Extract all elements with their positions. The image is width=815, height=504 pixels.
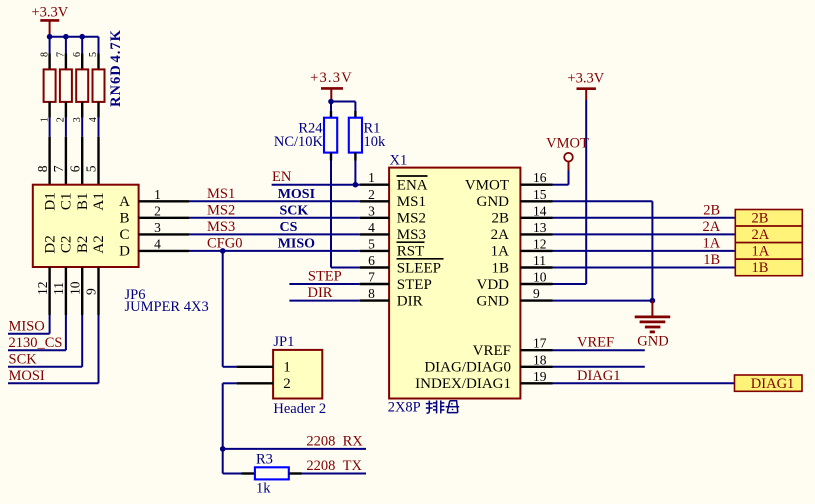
wire (VMOT to pin16) (553, 171, 569, 185)
svg-text:2X8P: 2X8P (388, 400, 421, 416)
JP1 pin 2 stub (237, 382, 274, 384)
wire + node DIAG1 (553, 368, 735, 384)
svg-text:MS2: MS2 (397, 211, 426, 227)
resistor RN6D element 1 (44, 54, 56, 118)
svg-text:12: 12 (533, 236, 547, 251)
svg-text:C1: C1 (59, 193, 75, 211)
svg-text:C2: C2 (59, 236, 75, 254)
junction (R1/EN) (353, 182, 359, 188)
wire + node EN (272, 169, 360, 185)
svg-text:B: B (119, 211, 129, 227)
resistor RN6D element 2 (60, 54, 72, 118)
svg-text:6: 6 (67, 165, 82, 172)
svg-text:1: 1 (283, 359, 291, 375)
svg-text:5: 5 (84, 165, 99, 172)
power +3.3V (middle) (310, 70, 353, 101)
svg-text:MS1: MS1 (397, 194, 426, 210)
wire (RN6D to JP6 col1) (49, 118, 51, 137)
JP6 pin 2 stub (139, 203, 189, 218)
svg-text:11: 11 (51, 282, 66, 295)
X1 pin 5 RST (360, 236, 425, 259)
svg-text:1: 1 (154, 187, 161, 202)
svg-text:EN: EN (272, 169, 292, 185)
X1 pin 10 VDD (477, 270, 553, 293)
svg-text:R3: R3 (256, 452, 273, 468)
port 2A (735, 226, 802, 243)
JP1 pin 1 stub (237, 366, 274, 368)
wire + node SCK (8, 315, 82, 368)
wire + node 2B (553, 202, 736, 218)
svg-text:MISO: MISO (9, 318, 45, 334)
svg-text:4.7K: 4.7K (108, 29, 124, 62)
svg-text:A: A (119, 194, 130, 210)
svg-text:DIAG/DIAG0: DIAG/DIAG0 (424, 360, 511, 376)
wire (3.3V to R24/R1) (331, 102, 355, 112)
svg-text:1: 1 (368, 170, 375, 185)
wire (RN6D to JP6 col2) (65, 118, 67, 137)
resistor R3 1k (242, 452, 302, 497)
svg-text:JP1: JP1 (273, 334, 294, 350)
resistor R24 NC/10K (274, 111, 337, 161)
resistor R1 10k (349, 111, 386, 161)
svg-text:RST: RST (397, 244, 425, 260)
power +3.3V (top-left) (31, 4, 68, 36)
wire + node STEP (289, 269, 359, 285)
connector JP1 Header 2 (273, 334, 326, 417)
X1 pin 16 VMOT (465, 170, 553, 193)
svg-text:DIAG1: DIAG1 (751, 376, 795, 392)
svg-text:1A: 1A (491, 244, 510, 260)
JP6 pin 3 stub (139, 220, 189, 235)
svg-text:GND: GND (477, 293, 510, 309)
wire + node 2130_CS (8, 315, 66, 351)
CJK glyph pai (排) (426, 400, 445, 413)
svg-text:D: D (119, 244, 130, 260)
wire (pin18) (553, 366, 645, 368)
svg-text:B1: B1 (75, 193, 91, 211)
wire + node MISO (bottom-left) (8, 315, 50, 334)
svg-text:Header 2: Header 2 (273, 401, 326, 417)
svg-text:14: 14 (533, 203, 547, 218)
wire (R1 down to EN row) (354, 161, 356, 185)
X1 pin 13 2A (491, 220, 553, 243)
svg-text:1A: 1A (752, 244, 770, 260)
svg-text:JUMPER 4X3: JUMPER 4X3 (125, 299, 209, 315)
JP6 pin 1 stub (139, 187, 189, 202)
IC X1 2X8P header body (389, 168, 520, 399)
junction (RX tap) (220, 446, 226, 452)
svg-text:9: 9 (533, 286, 540, 301)
svg-text:NC/10K: NC/10K (274, 134, 324, 150)
svg-text:B2: B2 (75, 236, 91, 254)
X1 pin 7 STEP (360, 270, 432, 293)
svg-text:10: 10 (533, 270, 547, 285)
svg-text:2A: 2A (491, 227, 510, 243)
X1 pin 17 VREF (473, 336, 553, 359)
svg-text:13: 13 (533, 220, 547, 235)
svg-text:MS1: MS1 (207, 186, 235, 202)
port 1B (735, 259, 802, 276)
svg-text:ENA: ENA (397, 178, 428, 194)
svg-text:6: 6 (368, 253, 375, 268)
ground GND (635, 301, 671, 350)
wire (RN6D to JP6 col3) (81, 118, 83, 137)
wire + node 2208 RX (223, 434, 366, 450)
wire + node MOSI (bottom-left) (8, 315, 99, 384)
svg-text:2130_CS: 2130_CS (9, 335, 63, 351)
svg-text:11: 11 (533, 253, 546, 268)
svg-text:CS: CS (280, 220, 298, 235)
wire + nodes CFG0 / MISO (189, 235, 360, 251)
svg-text:VREF: VREF (473, 343, 511, 359)
wire + nodes MS1 / MOSI (189, 186, 360, 202)
X1 pin 18 DIAG/DIAG0 (424, 352, 552, 375)
svg-text:15: 15 (533, 187, 547, 202)
RN6D pins 1,2,3,4 bottom (39, 117, 99, 122)
svg-text:MOSI: MOSI (9, 368, 45, 384)
wire (RN6D to JP6 col4) (98, 118, 100, 137)
junction (rail-col3) (79, 34, 85, 40)
wire + nodes MS2 / SCK (189, 202, 360, 218)
wire + nodes MS3 / CS (189, 219, 360, 235)
wire (pin9 GND) (553, 300, 653, 302)
resistor network RN6D 4.7K pins 8,7,6,5 top (39, 52, 99, 57)
svg-text:8: 8 (35, 165, 50, 172)
svg-text:18: 18 (533, 352, 547, 367)
X1 pin 12 1A (491, 236, 553, 259)
svg-text:INDEX/DIAG1: INDEX/DIAG1 (415, 376, 511, 392)
svg-text:2208 RX: 2208 RX (306, 434, 363, 450)
svg-text:3: 3 (154, 220, 161, 235)
svg-text:DIAG1: DIAG1 (577, 368, 621, 384)
X1 pin 3 MS2 (360, 203, 426, 226)
svg-text:1k: 1k (256, 481, 271, 497)
junction (3.3V/R24) (328, 99, 334, 105)
svg-text:GND: GND (477, 194, 510, 210)
svg-text:2: 2 (283, 376, 291, 392)
X1 pin 8 DIR (360, 286, 423, 309)
svg-text:2B: 2B (491, 211, 509, 227)
wire + node 2208 TX (302, 458, 366, 474)
svg-text:STEP: STEP (397, 277, 432, 293)
svg-text:A2: A2 (91, 235, 107, 253)
svg-text:A1: A1 (91, 192, 107, 210)
svg-text:+3.3V: +3.3V (567, 71, 604, 87)
svg-text:2A: 2A (752, 227, 770, 243)
svg-text:MS2: MS2 (207, 202, 235, 218)
svg-text:VMOT: VMOT (465, 178, 509, 194)
svg-text:RN6D: RN6D (108, 64, 124, 107)
svg-text:19: 19 (533, 369, 547, 384)
svg-text:C: C (119, 227, 129, 243)
svg-text:7: 7 (368, 270, 375, 285)
resistor RN6D element 4 (93, 54, 105, 118)
svg-text:5: 5 (368, 236, 375, 251)
X1 pin 14 2B (491, 203, 552, 226)
svg-text:12: 12 (35, 282, 50, 296)
svg-text:SCK: SCK (280, 203, 309, 218)
terminal VMOT (546, 136, 589, 171)
svg-text:9: 9 (84, 288, 99, 295)
svg-text:2: 2 (154, 203, 161, 218)
X1 pin 11 1B (491, 253, 552, 276)
wire (pin15 GND to ground) (553, 201, 653, 300)
svg-text:7: 7 (51, 165, 66, 172)
port DIAG1 (735, 375, 803, 392)
X1 pin 2 MS1 (360, 187, 426, 210)
X1 pin 6 SLEEP (360, 253, 444, 276)
wire + node 2A (553, 219, 736, 235)
svg-text:SCK: SCK (9, 352, 38, 368)
wire + node VREF (553, 335, 645, 351)
svg-text:1B: 1B (491, 260, 509, 276)
svg-text:MISO: MISO (278, 236, 315, 251)
wire + node 1B (553, 252, 736, 268)
svg-text:1B: 1B (752, 260, 769, 276)
resistor RN6D element 3 (76, 54, 88, 118)
X1 pin 19 INDEX/DIAG1 (415, 369, 552, 392)
JP6 bottom pins 12,11,10,9 (35, 267, 99, 315)
svg-text:17: 17 (533, 336, 547, 351)
svg-text:16: 16 (533, 170, 547, 185)
svg-text:4: 4 (368, 220, 375, 235)
svg-text:VMOT: VMOT (546, 136, 589, 152)
JP6 top pins 8,7,6,5 (35, 137, 99, 185)
svg-text:D2: D2 (42, 235, 58, 253)
svg-text:2A: 2A (702, 219, 720, 235)
svg-text:+3.3V: +3.3V (310, 70, 353, 86)
X1 pin 4 MS3 (360, 220, 426, 243)
wire + node 1A (553, 235, 736, 251)
svg-text:2B: 2B (752, 210, 769, 226)
svg-text:SLEEP: SLEEP (397, 260, 441, 276)
junction (CFG0/JP1) (220, 248, 226, 254)
svg-text:10: 10 (67, 281, 82, 295)
svg-text:3: 3 (368, 203, 375, 218)
wire + node DIR (289, 285, 359, 301)
port 2B (735, 210, 802, 227)
X1 pin 1 ENA (360, 170, 428, 193)
svg-text:+3.3V: +3.3V (31, 4, 68, 20)
svg-text:4: 4 (154, 236, 161, 251)
svg-text:2208 TX: 2208 TX (306, 458, 362, 474)
CJK glyph mu (母) (446, 401, 460, 413)
connector JP6 JUMPER 4X3 (33, 185, 139, 267)
X1 pin 9 GND (477, 286, 553, 309)
X1 pin 15 GND (477, 187, 553, 210)
junction (rail-col2) (63, 34, 69, 40)
wire (CFG0 down to JP1 pin1) (223, 251, 237, 367)
svg-text:MS3: MS3 (397, 227, 426, 243)
wire (3.3V to VDD pin10) (553, 100, 587, 284)
svg-text:STEP: STEP (308, 269, 342, 285)
svg-text:8: 8 (368, 286, 375, 301)
svg-text:VREF: VREF (577, 335, 614, 351)
svg-text:VDD: VDD (477, 277, 510, 293)
svg-text:GND: GND (637, 334, 668, 350)
svg-text:2B: 2B (703, 202, 720, 218)
svg-text:MS3: MS3 (207, 219, 235, 235)
svg-text:DIR: DIR (397, 293, 423, 309)
svg-text:DIR: DIR (308, 285, 333, 301)
svg-text:D1: D1 (42, 192, 58, 210)
junction (rail-col1) (47, 34, 53, 40)
svg-text:10k: 10k (364, 134, 387, 150)
svg-text:2: 2 (368, 187, 375, 202)
svg-text:1B: 1B (703, 252, 720, 268)
wire (R24 down to pin6 row) (331, 161, 360, 268)
svg-text:X1: X1 (390, 152, 408, 168)
port 1A (735, 243, 802, 260)
wire (3.3V rail to resistor network) (50, 37, 99, 54)
power +3.3V (right) (567, 71, 604, 100)
junction (GND) (650, 298, 656, 304)
svg-text:1A: 1A (702, 235, 720, 251)
JP6 pin 4 stub (139, 236, 189, 251)
svg-text:MOSI: MOSI (278, 187, 315, 202)
wire (to R3) (223, 473, 242, 475)
wire (JP1 pin2 down) (223, 383, 237, 473)
